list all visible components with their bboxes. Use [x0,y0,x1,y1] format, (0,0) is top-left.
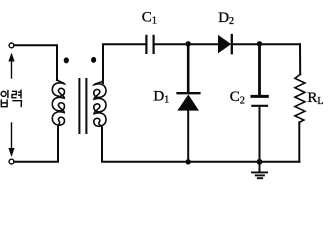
wire top-left to primary top [14,45,57,80]
input terminal top [9,43,14,48]
input terminal bottom [9,159,14,164]
phase dot left [64,57,69,63]
wire RL bottom to rail [298,122,300,161]
diode D1 branch wire top [187,44,190,92]
wire D2 to right corner [233,43,300,45]
diode D1 branch wire bottom [187,111,189,162]
diode D1 [177,93,199,110]
wire secondary top to top rail [103,44,145,83]
capacitor C2 lead bottom [259,107,261,162]
transformer core [78,79,80,133]
arrow down (input polarity) [8,123,14,157]
svg-text:C1: C1 [142,9,157,26]
transformer secondary winding [94,80,106,128]
node junction bottom of D1 [186,159,191,164]
label 입력 (input) drawn glyphs [1,90,21,108]
wire right side down to RL [299,44,301,74]
svg-text:C2: C2 [230,89,245,106]
resistor RL zigzag [295,74,305,122]
wire primary bottom to bottom-left rail [14,127,58,162]
transformer primary winding [52,79,64,127]
capacitor C2 branch lead top (thick) [258,44,261,95]
capacitor C1 [145,36,147,53]
node junction top of D1 [186,41,191,46]
svg-text:D1: D1 [153,88,169,105]
capacitor C2 [252,96,267,105]
node junction top of C2 [257,41,262,46]
wire C1 to D2 [155,43,218,45]
node junction bottom of C2 / ground [257,159,263,165]
wire secondary bottom to bottom rail [102,128,299,162]
arrow up (input polarity) [8,53,14,79]
phase dot right [91,57,96,63]
ground symbol [251,162,268,178]
diode D2 [218,35,232,54]
svg-text:RL: RL [307,90,323,107]
svg-text:D2: D2 [218,10,234,27]
